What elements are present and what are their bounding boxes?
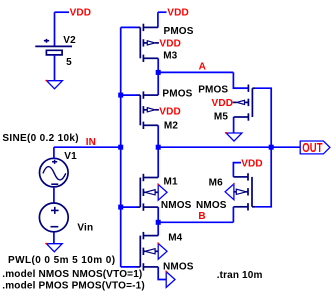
wire M6 drain to VDD flag xyxy=(233,163,241,177)
junction IN-bus xyxy=(118,145,123,150)
transistor M5 PMOS xyxy=(251,88,253,117)
wire IN net xyxy=(54,146,121,148)
svg-text:M4: M4 xyxy=(168,232,182,243)
junction node B xyxy=(156,220,161,225)
port OUT xyxy=(300,141,330,154)
ground under Vin xyxy=(46,244,62,252)
wire gate bus IN xyxy=(120,27,122,267)
ground M4 source xyxy=(166,272,175,288)
wire M2 drain to M1 drain xyxy=(157,125,159,177)
svg-text:NMOS: NMOS xyxy=(163,262,194,273)
svg-text:VDD: VDD xyxy=(167,8,189,19)
svg-text:VDD: VDD xyxy=(159,39,181,50)
sine source V1 xyxy=(40,158,69,187)
svg-text:VDD: VDD xyxy=(241,158,263,169)
svg-text:M1: M1 xyxy=(164,176,178,187)
wire node A horizontal xyxy=(158,71,233,73)
transistor M1 NMOS xyxy=(121,206,137,208)
wire V1 top xyxy=(53,147,55,159)
wire node B vertical xyxy=(157,207,159,236)
svg-text:SINE(0 0.2 10k): SINE(0 0.2 10k) xyxy=(2,133,79,144)
svg-text:B: B xyxy=(198,211,205,222)
wire M6 source to node B xyxy=(232,207,234,223)
junction bus M2 gate xyxy=(118,93,123,98)
wire node B horizontal xyxy=(158,221,233,223)
wire M3 source to VDD flag xyxy=(157,12,159,27)
svg-text:OUT: OUT xyxy=(302,142,322,156)
svg-text:PMOS: PMOS xyxy=(198,85,228,96)
svg-text:.tran 10m: .tran 10m xyxy=(217,270,263,281)
wire M5 gate to OUT xyxy=(256,88,271,147)
ground under M5 xyxy=(226,133,242,141)
wire A to M5 source xyxy=(233,72,248,88)
svg-text:VDD: VDD xyxy=(159,107,181,118)
wire node A vertical xyxy=(157,58,159,95)
svg-text:M2: M2 xyxy=(164,121,178,132)
svg-text:PMOS: PMOS xyxy=(162,88,192,99)
svg-text:NMOS: NMOS xyxy=(196,200,227,211)
dc source Vin xyxy=(39,203,68,232)
transistor M6 NMOS xyxy=(251,177,253,207)
svg-text:.model NMOS NMOS(VTO=1): .model NMOS NMOS(VTO=1) xyxy=(2,269,142,280)
svg-text:.model PMOS PMOS(VTO=-1): .model PMOS PMOS(VTO=-1) xyxy=(2,281,145,292)
ground M6 bulk xyxy=(225,184,234,200)
wire VDD flag to V2 plus xyxy=(54,12,56,46)
svg-text:M6: M6 xyxy=(209,177,223,188)
wire VDD flag stub M3 xyxy=(158,11,167,13)
junction OUT right xyxy=(269,145,274,150)
svg-text:Vin: Vin xyxy=(77,223,93,234)
junction bus M1 gate xyxy=(118,205,123,210)
wire V2 to ground xyxy=(54,55,56,81)
svg-text:VDD: VDD xyxy=(212,98,234,109)
wire V1 to Vin xyxy=(53,188,55,204)
ground M1 bulk xyxy=(158,184,167,200)
ground M4 bulk xyxy=(158,243,167,259)
wire M6 gate to OUT xyxy=(255,147,271,207)
svg-text:PWL(0 0 5m 5 10m 0): PWL(0 0 5m 5 10m 0) xyxy=(8,255,115,266)
transistor M3 PMOS xyxy=(121,26,137,28)
svg-text:VDD: VDD xyxy=(70,8,92,19)
svg-text:M3: M3 xyxy=(163,51,177,62)
junction node A xyxy=(156,70,161,75)
svg-text:PMOS: PMOS xyxy=(164,26,194,37)
svg-text:NMOS: NMOS xyxy=(161,200,192,211)
wire Vin to ground xyxy=(53,233,55,244)
ground under V2 xyxy=(47,81,63,89)
battery V2 xyxy=(35,45,72,47)
wire OUT net horizontal xyxy=(158,146,300,148)
transistor M2 PMOS xyxy=(121,94,137,96)
svg-text:V2: V2 xyxy=(63,35,76,46)
VDD flag (top-left) xyxy=(55,11,70,13)
svg-text:IN: IN xyxy=(86,137,96,148)
junction OUT tap xyxy=(156,145,161,150)
wire M4 source to ground xyxy=(158,267,166,280)
svg-text:M5: M5 xyxy=(214,112,228,123)
svg-text:5: 5 xyxy=(66,57,72,68)
svg-text:A: A xyxy=(199,62,206,73)
wire M5 drain to ground xyxy=(233,117,235,133)
transistor M4 NMOS xyxy=(121,266,137,268)
svg-text:V1: V1 xyxy=(64,151,77,162)
